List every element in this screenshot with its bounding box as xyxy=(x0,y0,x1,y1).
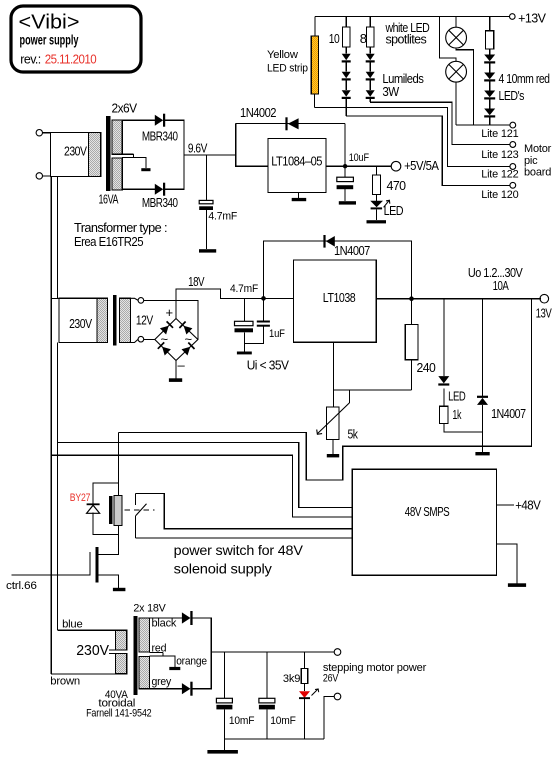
resistor R 8 body xyxy=(367,27,374,47)
wire red LED to bottom rail xyxy=(304,699,306,739)
terminal 26V + xyxy=(334,649,341,656)
svg-text:230V: 230V xyxy=(64,144,87,159)
wire 13V feed down right side xyxy=(119,299,532,480)
wire orange center tap xyxy=(150,655,163,657)
resistor 240 top lead xyxy=(411,299,413,325)
wire T2 bottom terminal to bridge left corner xyxy=(144,338,155,340)
potentiometer 5k body xyxy=(326,407,339,440)
svg-text:LED: LED xyxy=(384,203,404,218)
MOSFET Q1 channel bar xyxy=(96,547,99,582)
svg-text:10: 10 xyxy=(329,31,340,46)
bridge diode TR xyxy=(184,326,193,335)
wire col3 to Lite 123 xyxy=(370,102,509,144)
T2 primary top edge extension xyxy=(51,297,59,299)
Uo terminal circle xyxy=(540,294,549,303)
wire switch top to SMPS on/off xyxy=(135,493,352,528)
resistor 1k body xyxy=(440,406,449,423)
svg-text:13V: 13V xyxy=(536,305,552,320)
wire 1N4002 loop top xyxy=(236,122,345,124)
wire between diodes col2 xyxy=(345,63,347,72)
capacitor 10mF(1) top plate (outlined) xyxy=(216,698,232,703)
wire T2 top terminal to bridge right corner xyxy=(144,300,198,339)
capacitor 4.7mF stem to ground xyxy=(206,210,208,249)
T2 secondary stub top xyxy=(130,298,138,300)
wire switch bottom to SMPS on/off xyxy=(135,537,352,539)
capacitor 4.7mF(2) bottom plate xyxy=(235,328,254,332)
diodes red LED column (4x 10mm) xyxy=(484,55,495,62)
svg-text:pic: pic xyxy=(524,155,538,167)
svg-text:~: ~ xyxy=(185,332,193,347)
svg-text:LED strip: LED strip xyxy=(267,63,308,75)
svg-text:black: black xyxy=(152,618,177,630)
regulator U2 LT1038 box xyxy=(294,260,377,342)
red LED arrows xyxy=(312,689,319,696)
wire pot wiper stub xyxy=(348,390,350,403)
LED lead xyxy=(376,194,378,201)
ground symbol pot 5k xyxy=(327,454,339,457)
wire bottom rail xyxy=(224,738,324,740)
svg-text:Transformer type :: Transformer type : xyxy=(74,220,167,235)
wire Lite 121 xyxy=(456,124,510,126)
wire after diode MBR340 top xyxy=(165,119,185,121)
capacitor 10mF(2) bottom plate xyxy=(259,705,275,710)
ground symbol bottom rail xyxy=(207,750,238,754)
svg-text:Erea E16TR25: Erea E16TR25 xyxy=(74,234,143,249)
terminal 26V - circle xyxy=(334,693,341,700)
svg-text:ctrl.66: ctrl.66 xyxy=(6,580,37,592)
wire R10 to diode chain xyxy=(345,47,347,54)
svg-text:Ui < 35V: Ui < 35V xyxy=(247,358,290,373)
svg-text:brown: brown xyxy=(50,676,80,688)
T3 primary tap slot xyxy=(109,650,127,654)
svg-text:red: red xyxy=(152,642,167,654)
resistor 240 body xyxy=(405,325,418,360)
transformer T1 secondary bottom half xyxy=(112,158,122,190)
wire strip to Lite 122 xyxy=(314,107,509,166)
ground symbol T3 center tap xyxy=(169,667,180,670)
transformer T1 secondary top half xyxy=(112,120,122,154)
regulator U1 LT1084-05 box xyxy=(268,138,326,192)
LED (5V indicator) triangle xyxy=(370,201,383,207)
transformer T1 core xyxy=(106,116,109,190)
wire ctrl.66 to gate xyxy=(11,574,90,576)
wire after top diode xyxy=(192,617,212,619)
wire pot bottom to ground xyxy=(332,440,334,454)
ground symbol under 4.7mF xyxy=(199,249,216,252)
svg-text:Farnell 141-9542: Farnell 141-9542 xyxy=(86,707,151,719)
resistor 240 bottom lead xyxy=(411,360,413,390)
svg-text:board: board xyxy=(524,167,551,179)
wire SMPS ground pin xyxy=(497,544,517,583)
svg-text:1k: 1k xyxy=(452,407,461,422)
svg-text:Lite 120: Lite 120 xyxy=(481,189,518,201)
svg-text:Yellow: Yellow xyxy=(267,49,298,61)
transformer T1 primary box xyxy=(51,133,101,177)
svg-text:stepping motor power: stepping motor power xyxy=(323,662,427,674)
wire cap2 to bottom rail xyxy=(266,709,268,738)
wire rail to lamp1 xyxy=(455,16,457,27)
wire col2 down to harness xyxy=(345,99,347,116)
wire rail to yellow strip xyxy=(314,16,316,35)
wires red LED chain xyxy=(489,49,491,54)
diode MBR340 bottom (D2) xyxy=(155,184,163,195)
wire cap1 branch xyxy=(223,652,225,698)
svg-text:Motor: Motor xyxy=(524,143,552,155)
wire col3 down to harness xyxy=(369,99,371,102)
svg-text:Lite 123: Lite 123 xyxy=(481,149,518,161)
svg-text:power supply: power supply xyxy=(20,33,79,48)
bridge diode TL xyxy=(160,326,169,335)
capacitor 4.7mF(2) stem to ground xyxy=(243,332,245,351)
wire lamp1 bottom to Lite121 xyxy=(456,48,473,125)
node dot loop right / 240 xyxy=(409,296,414,301)
bridge diode BL xyxy=(162,347,171,356)
resistor (red LED column) body xyxy=(486,31,494,49)
LT1084 ground pin stem xyxy=(298,193,300,198)
wire rail to lamp2 feed xyxy=(440,16,457,61)
wire mains vertical 2 (blue) lower part xyxy=(57,343,59,631)
svg-text:rev.:: rev.: xyxy=(20,52,40,67)
relay coil body xyxy=(114,496,122,526)
wire ADJ horizontal to 240 bottom xyxy=(333,389,411,391)
svg-text:1N4007: 1N4007 xyxy=(334,243,370,258)
wire mains line B to SMPS xyxy=(58,442,353,507)
svg-text:4.7mF: 4.7mF xyxy=(208,211,237,223)
svg-text:power switch for 48V: power switch for 48V xyxy=(174,542,304,558)
title box xyxy=(11,6,141,72)
transformer T3 secondary top half xyxy=(139,618,149,652)
wire lamp2 bottom to Lite121 xyxy=(455,82,457,125)
wire black (secondary top) xyxy=(150,617,182,619)
wire rectifier join vertical xyxy=(210,618,212,689)
svg-text:1N4007: 1N4007 xyxy=(491,406,526,421)
terminal Lite 120 xyxy=(510,182,516,188)
wire tap join xyxy=(163,652,175,667)
resistor R 470 lead xyxy=(376,166,378,175)
capacitor 4.7mF bottom plate xyxy=(199,206,213,210)
capacitor 4.7mF(2) branch xyxy=(243,298,245,321)
svg-text:LED: LED xyxy=(448,389,465,404)
svg-text:3k9: 3k9 xyxy=(283,673,300,685)
terminal Lite 122 xyxy=(510,164,516,170)
svg-text:orange: orange xyxy=(176,656,207,668)
wire terminal 26V - xyxy=(324,697,334,739)
wire grey (secondary bottom) xyxy=(150,688,182,690)
svg-text:3W: 3W xyxy=(382,84,399,99)
wire T1 secondary top rail xyxy=(122,119,155,121)
wire 1N4007(2) to ground xyxy=(482,405,484,452)
relay contact blade xyxy=(136,504,147,516)
capacitor 1uF plates xyxy=(257,321,270,323)
svg-text:LT1038: LT1038 xyxy=(323,290,356,305)
wire rail to R8 xyxy=(369,16,371,27)
wire terminal N to T1 xyxy=(43,175,52,177)
svg-text:240: 240 xyxy=(417,360,436,375)
svg-text:10mF: 10mF xyxy=(270,715,296,727)
relay contact lower stub xyxy=(134,516,136,538)
LED2 triangle xyxy=(438,376,449,383)
T2 secondary terminal top xyxy=(138,298,144,304)
resistor 3k9 body xyxy=(301,668,308,683)
wire rail to red LED column resistor xyxy=(489,16,491,30)
ground symbol under 10uF xyxy=(339,201,356,204)
svg-text:Lite 122: Lite 122 xyxy=(481,169,518,181)
svg-text:16VA: 16VA xyxy=(99,192,119,207)
wire output rail 26V xyxy=(211,651,334,653)
svg-text:MBR340: MBR340 xyxy=(142,129,178,144)
wire R8 to diode chain xyxy=(369,47,371,54)
T2 secondary terminal bottom xyxy=(138,336,144,342)
svg-text:4 10mm red: 4 10mm red xyxy=(499,71,550,86)
lamp L1 (white spotlight) xyxy=(446,27,467,48)
wire 9.6V output xyxy=(184,154,236,156)
wire 1uF bottom to ground join xyxy=(244,327,263,344)
diode T3 top (points right) xyxy=(182,612,191,623)
svg-text:1N4002: 1N4002 xyxy=(240,105,276,120)
T2 secondary stub bottom xyxy=(130,339,138,342)
resistor R 470 body xyxy=(373,175,381,195)
wire bridge plus up and to 18V rail xyxy=(176,289,294,318)
svg-text:blue: blue xyxy=(62,619,82,631)
bridge diode BR xyxy=(182,347,191,356)
wire 4.7mF branch xyxy=(206,155,208,201)
wire 1k bottom join xyxy=(444,424,483,433)
capacitor 10mF(2) top plate (outlined) xyxy=(259,698,275,703)
wire between diodes col3 xyxy=(369,63,371,72)
diode 1N4007 bypass (points left) xyxy=(326,236,335,247)
LED arrows xyxy=(384,200,390,207)
wire after bottom diode xyxy=(192,688,212,690)
mains input terminal L xyxy=(36,130,42,136)
wire T1 secondary bottom rail xyxy=(122,188,155,190)
wire center tap to ground xyxy=(134,158,146,169)
ground symbol under LED xyxy=(367,220,387,223)
diode BY27 triangle (outline, points up) xyxy=(87,505,100,513)
wire strip bottom xyxy=(313,94,315,107)
wire BY27 bottom join xyxy=(93,513,118,535)
diode T3 bottom (points right) xyxy=(182,683,191,694)
svg-text:+: + xyxy=(166,305,173,320)
wire 1N4002 loop right vertical xyxy=(344,123,346,166)
svg-text:10A: 10A xyxy=(493,278,509,293)
relay coil core bar xyxy=(109,497,112,524)
relay contact upper stub xyxy=(134,493,136,505)
ground symbol SMPS xyxy=(508,583,526,587)
svg-text:470: 470 xyxy=(387,178,406,193)
svg-text:<Vibi>: <Vibi> xyxy=(19,12,80,34)
wire mains vertical 2 (blue) upper part xyxy=(57,176,59,298)
svg-text:1uF: 1uF xyxy=(269,328,285,340)
yellow LED strip xyxy=(311,36,318,94)
wire 3k9 to red LED xyxy=(304,684,306,692)
svg-text:LED's: LED's xyxy=(499,88,525,103)
diode MBR340 top (D1) xyxy=(155,115,163,126)
transformer T2 core xyxy=(113,296,116,346)
svg-text:+5V/5A: +5V/5A xyxy=(404,158,439,173)
wire BY27 branch xyxy=(93,483,118,504)
wire 1N4007(2) branch xyxy=(482,299,484,397)
svg-text:grey: grey xyxy=(152,676,172,688)
svg-text:Lite 121: Lite 121 xyxy=(481,128,518,140)
wire LT1038 output rail Uo xyxy=(376,298,541,300)
svg-text:~: ~ xyxy=(161,332,169,347)
wire coil bottom to MOSFET drain xyxy=(99,526,119,555)
ground symbol bridge xyxy=(169,378,182,382)
ground symbol 1N4007(2) xyxy=(475,452,489,455)
wire mains line C to SMPS xyxy=(51,455,352,517)
LED cathode to ground stem xyxy=(376,209,378,220)
wire col2 to Lite 120 xyxy=(346,116,509,185)
MOSFET Q1 source wire to ground xyxy=(99,575,119,588)
48V SMPS box xyxy=(352,469,496,575)
diodes col2 (Lumileds) xyxy=(342,54,351,61)
wire 3k9 branch xyxy=(304,652,306,668)
transformer T2 primary box xyxy=(59,298,107,342)
wire bridge minus to ground xyxy=(175,361,177,379)
wire cap1 to bottom rail xyxy=(223,709,225,750)
svg-text:2x 18V: 2x 18V xyxy=(133,602,166,614)
wire rectifier join vertical xyxy=(183,120,185,189)
capacitor 4.7mF top plate (outlined) xyxy=(199,200,213,203)
ground symbol 4.7mF(2) xyxy=(237,352,252,355)
svg-text:10mF: 10mF xyxy=(229,715,255,727)
+13V terminal circle xyxy=(510,14,516,20)
terminal Lite 121 xyxy=(510,122,516,128)
svg-text:12V: 12V xyxy=(136,313,154,328)
wire LED2 to 1k xyxy=(443,389,445,407)
svg-text:18V: 18V xyxy=(188,274,205,289)
wire LT1038 ADJ pin down xyxy=(332,342,334,407)
lamp L2 (white spotlight) xyxy=(446,61,467,82)
mains input terminal N xyxy=(36,173,42,179)
wire cap2 branch xyxy=(266,652,268,698)
svg-text:+48V: +48V xyxy=(515,498,541,513)
capacitor 10uF stem to ground xyxy=(344,189,346,201)
capacitor 10uF top plate (outlined) xyxy=(337,177,354,181)
svg-text:8: 8 xyxy=(360,31,367,46)
svg-text:25.11.2010: 25.11.2010 xyxy=(45,52,97,67)
transformer T3 primary bottom edge (brown) xyxy=(51,673,127,675)
capacitor 4.7mF(2) top plate (outlined) xyxy=(235,321,254,325)
bridge rectifier diamond xyxy=(155,319,198,361)
MOSFET Q1 gate bar xyxy=(89,552,91,575)
wire 1N4007 bypass loop xyxy=(264,241,412,299)
wire LED2 branch xyxy=(443,299,445,376)
T1 center tap slot xyxy=(122,153,133,155)
svg-text:48V SMPS: 48V SMPS xyxy=(405,504,450,519)
svg-text:BY27: BY27 xyxy=(70,492,91,504)
svg-text:26V: 26V xyxy=(323,673,339,685)
wire mains vertical 1 (brown) xyxy=(50,176,52,674)
ground symbol MOSFET source xyxy=(113,588,126,591)
diodes col3 (Lumileds) xyxy=(366,54,375,61)
svg-text:9.6V: 9.6V xyxy=(188,141,208,156)
+5V terminal circle xyxy=(391,161,401,171)
wire jog to LT1084 input xyxy=(236,123,268,166)
svg-text:LT1084–05: LT1084–05 xyxy=(271,154,322,169)
wire terminal L to T1 xyxy=(43,132,52,134)
capacitor 10uF branch xyxy=(344,166,346,177)
transformer T3 primary winding xyxy=(116,630,127,674)
svg-text:MBR340: MBR340 xyxy=(142,195,178,210)
svg-text:5k: 5k xyxy=(348,427,359,442)
transformer T2 secondary winding xyxy=(119,298,130,342)
transformer T3 primary top edge (blue) xyxy=(58,629,127,631)
red LED triangle xyxy=(299,691,310,698)
diode 1N4007(2) points up xyxy=(477,398,488,405)
transformer T3 secondary bottom half xyxy=(139,656,149,688)
svg-text:4.7mF: 4.7mF xyxy=(230,283,258,295)
ground symbol under LT1084 xyxy=(292,198,307,201)
capacitor 10mF(1) bottom plate xyxy=(216,705,232,710)
svg-text:230V: 230V xyxy=(76,642,109,659)
terminal Lite 123 xyxy=(510,142,516,148)
resistor R 10 body xyxy=(343,27,350,47)
relay linkage dashes xyxy=(125,509,155,511)
node dot loop left / 1uF xyxy=(261,296,266,301)
svg-text:10uF: 10uF xyxy=(349,152,370,164)
wire red center tap xyxy=(150,651,163,653)
capacitor 10uF bottom plate xyxy=(337,185,354,189)
wire after diode MBR340 bottom xyxy=(165,188,185,190)
svg-text:solenoid supply: solenoid supply xyxy=(174,561,272,577)
wire +13V rail xyxy=(315,15,509,17)
potentiometer 5k wiper diagonal xyxy=(317,403,350,434)
svg-text:+13V: +13V xyxy=(518,10,546,25)
diode 1N4002 (points left) xyxy=(288,118,299,129)
wire SMPS +48V output xyxy=(497,504,514,506)
ground symbol T1 center tap xyxy=(141,168,150,171)
capacitor 1uF branch xyxy=(263,298,265,320)
wire LT1084 output xyxy=(326,165,391,167)
svg-text:230V: 230V xyxy=(69,316,92,331)
wire rail to R10 xyxy=(345,16,347,27)
wire relay coil feed vertical xyxy=(118,432,120,495)
node 9.6V junction dot xyxy=(343,164,347,168)
svg-text:spotlites: spotlites xyxy=(386,31,428,46)
svg-text:2x6V: 2x6V xyxy=(112,101,138,116)
transformer T3 core xyxy=(134,617,137,695)
